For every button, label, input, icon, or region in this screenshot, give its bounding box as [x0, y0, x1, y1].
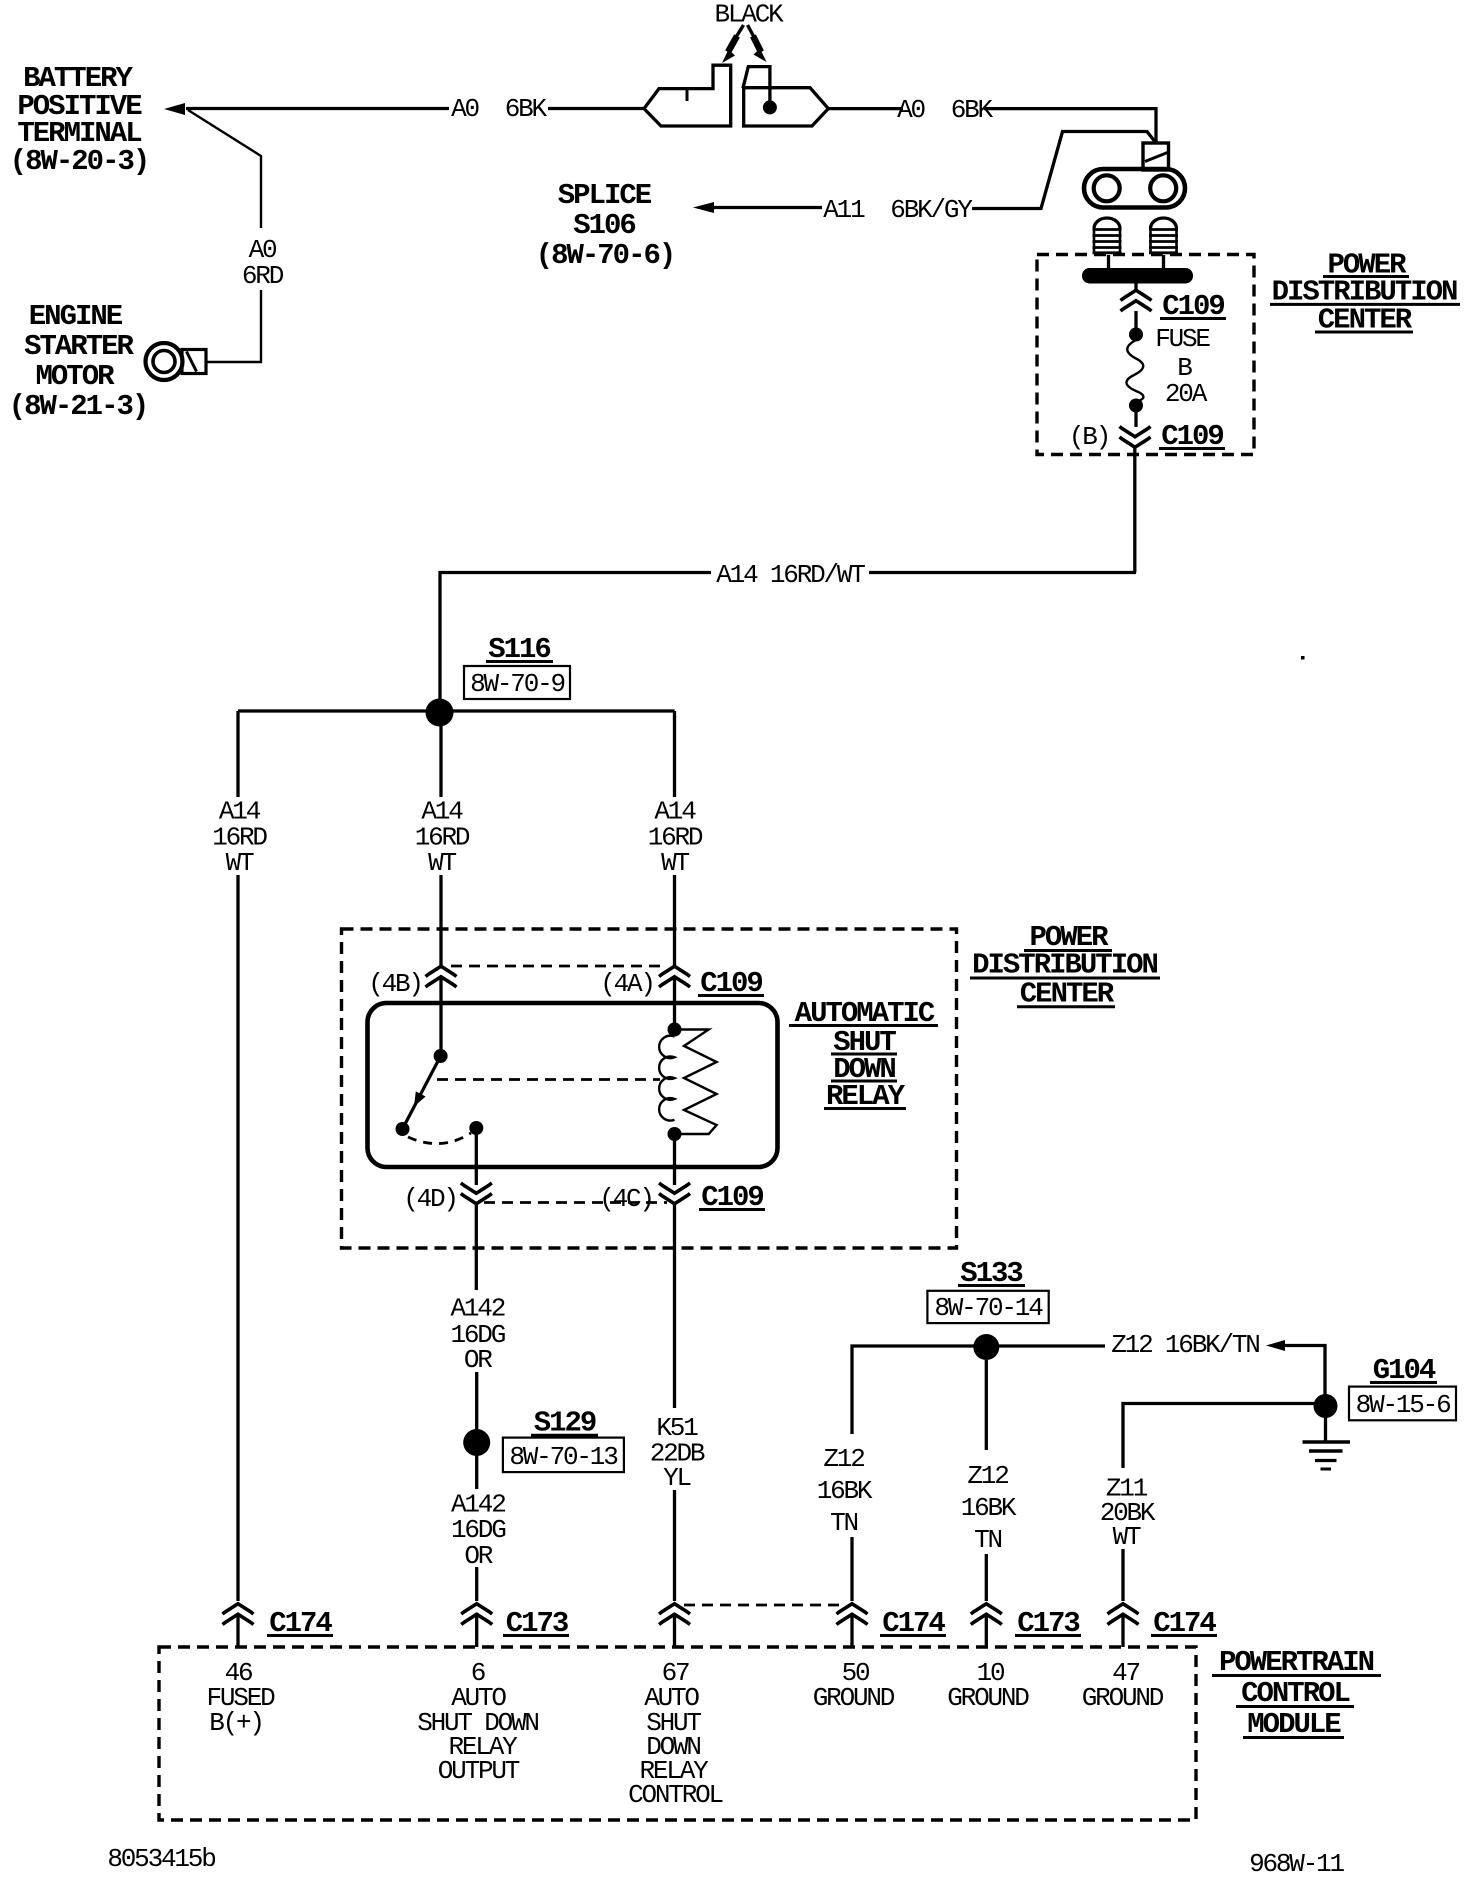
svg-text:968W-11: 968W-11 [1249, 1849, 1344, 1878]
relay label [789, 997, 938, 1113]
wire 4C down (K51) [673, 1204, 676, 1408]
wire 4D down [475, 1204, 478, 1290]
wire to connector [548, 107, 643, 110]
chevron C173 col2 (up) [461, 1604, 492, 1625]
chevron C174 col1 (up) [223, 1604, 254, 1625]
svg-text:TN: TN [974, 1525, 1001, 1555]
svg-text:(4A): (4A) [600, 969, 654, 999]
wire A11 left segment [713, 206, 822, 209]
pin 46 fused B(+) [206, 1658, 275, 1738]
power distribution center box (top) [1037, 255, 1254, 455]
power distribution center label (middle) [970, 921, 1160, 1011]
fusible link [1143, 143, 1169, 170]
svg-text:FUSE: FUSE [1155, 324, 1210, 354]
S133 wire [852, 1346, 1105, 1434]
wire col2 upper [439, 711, 442, 797]
svg-text:8W-15-6: 8W-15-6 [1356, 1390, 1450, 1420]
wire col1 long [236, 875, 239, 1601]
relay mechanical link dashed [437, 1078, 660, 1081]
power distribution center box (middle) [342, 929, 957, 1248]
svg-text:A142: A142 [450, 1294, 504, 1324]
pin 50 ground [813, 1658, 895, 1713]
svg-text:A0 6BK: A0 6BK [451, 94, 547, 124]
svg-text:A14 16RD/WT: A14 16RD/WT [716, 560, 865, 590]
wires chevrons into PCM [238, 1615, 1123, 1647]
wire A14 left segment to S116 [440, 573, 711, 701]
power distribution center label (top) [1270, 248, 1460, 336]
stud stubs to bus bar [1109, 255, 1164, 268]
svg-text:(4D): (4D) [403, 1184, 457, 1214]
wire coil to 4C [673, 1134, 676, 1185]
dashed connector line 67-50 [684, 1604, 843, 1607]
relay coil [659, 1023, 681, 1142]
inline connector left half [644, 65, 731, 126]
battery terminal arrow [164, 103, 185, 115]
svg-text:A11 6BK/GY: A11 6BK/GY [823, 195, 973, 225]
svg-text:OR: OR [464, 1541, 492, 1571]
chevron C174 col6 (up) [1108, 1604, 1139, 1625]
wire to S129 [475, 1372, 478, 1489]
wire K51 to chevron [673, 1490, 676, 1601]
connector chevron C109 (B) (down) [1120, 427, 1151, 448]
connector chevron (4A) up [659, 966, 690, 987]
svg-text:STARTER: STARTER [24, 330, 134, 363]
wire chevron to fuse [1134, 311, 1137, 330]
engine starter motor label [9, 300, 148, 423]
svg-text:WT: WT [661, 848, 689, 878]
black arrow left bolt [722, 25, 744, 63]
svg-text:MOTOR: MOTOR [35, 360, 115, 393]
svg-text:(B): (B) [1069, 422, 1109, 452]
wire A14 from PDC down and left [869, 447, 1136, 573]
pin 10 ground [947, 1658, 1029, 1713]
relay switch end dot [396, 1122, 410, 1136]
stud terminal left [1093, 218, 1122, 253]
splice arrow [693, 202, 714, 213]
engine starter motor ring terminal [146, 343, 207, 380]
stud terminal right [1149, 218, 1178, 253]
svg-text:Z12: Z12 [967, 1461, 1008, 1491]
svg-text:OUTPUT: OUTPUT [438, 1756, 520, 1786]
splice S106 label [536, 179, 675, 272]
svg-text:16BK: 16BK [817, 1476, 873, 1506]
branch wire at S116 [238, 709, 675, 712]
connector chevron C109 (up, in PDC) [1121, 290, 1152, 311]
svg-text:SPLICE: SPLICE [558, 179, 652, 212]
relay blade travel dashed arc [408, 1133, 471, 1144]
svg-text:8W-70-13: 8W-70-13 [509, 1442, 617, 1472]
svg-text:A0 6BK: A0 6BK [897, 95, 993, 125]
svg-text:ENGINE: ENGINE [29, 300, 123, 333]
scan speck artifact [1301, 656, 1305, 660]
wire common to 4D [475, 1128, 478, 1185]
svg-text:GROUND: GROUND [813, 1683, 895, 1713]
wire A0 6RD diagonal to starter [188, 110, 261, 362]
eyelet terminal block [1084, 169, 1185, 208]
fuse B 20A [1126, 328, 1143, 413]
svg-text:(8W-20-3): (8W-20-3) [10, 145, 149, 178]
svg-text:YL: YL [663, 1463, 690, 1493]
relay blade arrowhead [414, 1091, 426, 1106]
powertrain control module box [159, 1647, 1196, 1820]
svg-text:GROUND: GROUND [1082, 1683, 1164, 1713]
dashed connector line 4D-4C [484, 1201, 667, 1204]
arrow to Z12 label [1266, 1340, 1285, 1351]
wire Z11 branch [1123, 1404, 1315, 1469]
svg-text:S106: S106 [573, 209, 635, 242]
S133 junction dot [973, 1334, 999, 1360]
wire col3 upper [673, 711, 676, 797]
wire 4B into relay [439, 978, 442, 1050]
wire G104 to Z12 label [1284, 1346, 1325, 1397]
wire A11 to fusible link [972, 132, 1156, 209]
svg-text:GROUND: GROUND [947, 1683, 1029, 1713]
connector chevron (4B) up [426, 966, 457, 987]
bus bar [1082, 268, 1193, 284]
wire to C173 [475, 1567, 478, 1601]
ground symbol [1303, 1442, 1351, 1469]
inline connector right half [743, 67, 828, 126]
S116 junction dot [426, 699, 454, 727]
connector chevron (4D) down [461, 1183, 492, 1204]
chevron col3 (up) [659, 1604, 690, 1625]
svg-text:20A: 20A [1165, 379, 1208, 409]
wire bus to connector C109 [1134, 284, 1137, 292]
wire A0 6BK left segment [186, 107, 449, 110]
svg-text:DISTRIBUTION: DISTRIBUTION [972, 948, 1157, 981]
pin 67 auto shut down relay control [628, 1658, 722, 1810]
wire col3 to 4A [673, 875, 676, 965]
relay common terminal dot [469, 1121, 483, 1135]
svg-text:CONTROL: CONTROL [628, 1780, 722, 1810]
svg-text:8W-70-14: 8W-70-14 [934, 1293, 1043, 1323]
svg-text:(4C): (4C) [599, 1184, 653, 1214]
svg-text:B(+): B(+) [209, 1708, 263, 1738]
svg-text:(4B): (4B) [368, 969, 422, 999]
pin 6 auto shut down relay output [417, 1658, 538, 1786]
chevron C174 col4 (up) [837, 1604, 868, 1625]
wire S133 down col5 [985, 1360, 988, 1450]
svg-text:TN: TN [830, 1508, 857, 1538]
svg-text:Z12 16BK/TN: Z12 16BK/TN [1111, 1330, 1259, 1360]
automatic shut down relay outline [368, 1003, 778, 1167]
wire dot to ground [1324, 1406, 1327, 1441]
wire col5 to chevron [985, 1554, 988, 1601]
pin 47 ground [1082, 1658, 1164, 1713]
powertrain control module label [1212, 1646, 1381, 1741]
svg-text:OR: OR [464, 1345, 492, 1375]
black arrow right bolt [748, 25, 767, 62]
svg-text:Z12: Z12 [823, 1444, 864, 1474]
S129 junction dot [463, 1429, 490, 1456]
relay switch pivot dot [434, 1049, 448, 1063]
dashed connector line 4B-4A [451, 965, 664, 968]
connector chevron (4C) down [659, 1183, 690, 1204]
wire A0 to PDC [984, 109, 1156, 144]
wire col2 to 4B [439, 875, 442, 965]
svg-text:6RD: 6RD [242, 261, 284, 291]
wire Z11 to chevron [1121, 1549, 1124, 1601]
wire A0 6BK right segment [828, 107, 903, 110]
wire col1 upper [236, 711, 239, 797]
wire col4 to chevron [850, 1537, 853, 1601]
svg-text:8W-70-9: 8W-70-9 [470, 669, 564, 699]
relay switch blade [404, 1056, 441, 1127]
relay coil resistor [675, 1030, 717, 1135]
svg-text:(8W-70-6): (8W-70-6) [536, 239, 675, 272]
wire fuse to chevron (B) [1134, 405, 1137, 427]
svg-text:16BK: 16BK [961, 1493, 1017, 1523]
chevron C173 col5 (up) [971, 1604, 1002, 1625]
svg-text:(8W-21-3): (8W-21-3) [9, 390, 148, 423]
svg-text:WT: WT [428, 848, 456, 878]
wire 4A into relay [673, 978, 676, 1029]
battery positive terminal label [10, 62, 149, 178]
G104 junction dot [1314, 1394, 1338, 1418]
svg-text:WT: WT [1113, 1522, 1141, 1552]
svg-text:WT: WT [226, 848, 254, 878]
svg-text:8053415b: 8053415b [107, 1844, 215, 1874]
